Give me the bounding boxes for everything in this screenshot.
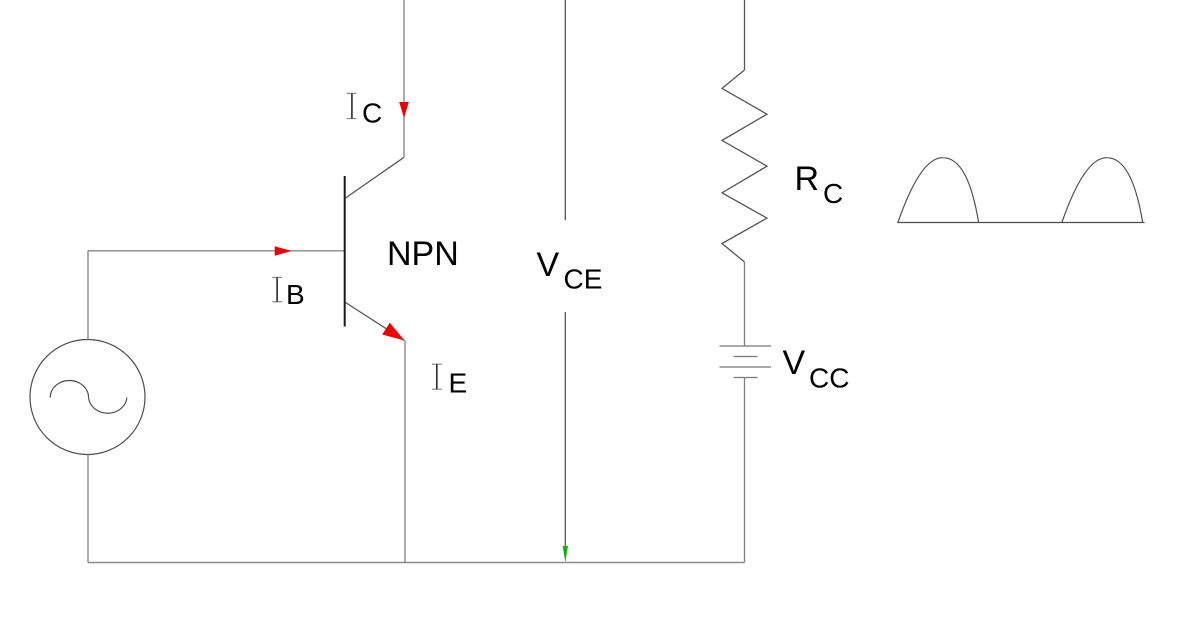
current arrow IB: [275, 246, 292, 256]
wire: source top to base node: [87, 251, 89, 340]
label IE: [432, 364, 467, 398]
svg-text:CE: CE: [564, 264, 603, 295]
wire: emitter vertical: [404, 341, 406, 563]
label RC: [795, 160, 844, 209]
label IC: [347, 93, 383, 128]
wire: base wire to transistor: [88, 250, 345, 252]
svg-text:C: C: [362, 98, 382, 129]
wire: resistor to battery: [744, 262, 746, 346]
label VCC: [783, 344, 850, 394]
transistor Q1 (NPN): [345, 157, 405, 340]
svg-text:B: B: [286, 279, 305, 310]
svg-text:CC: CC: [809, 363, 849, 394]
resistor RC: [722, 0, 767, 262]
label VCE: [537, 246, 603, 295]
output waveform hump 2: [1062, 158, 1143, 223]
wire: collector vertical: [403, 0, 405, 157]
emitter arrowhead (IE direction): [382, 323, 404, 341]
svg-text:V: V: [537, 246, 560, 284]
svg-text:V: V: [783, 344, 806, 382]
output waveform baseline: [897, 222, 1144, 224]
VCE measurement line (lower segment): [564, 312, 566, 548]
battery VCC: [720, 346, 772, 378]
wire: bottom rail: [88, 562, 745, 564]
svg-text:C: C: [823, 178, 843, 209]
svg-text:NPN: NPN: [387, 235, 459, 273]
current arrow IC: [399, 102, 409, 118]
output waveform hump 1: [898, 158, 979, 223]
wire: battery to bottom rail: [744, 378, 746, 563]
AC source VS: [30, 340, 145, 455]
label IB: [272, 277, 304, 310]
VCE green arrowhead: [563, 546, 568, 563]
svg-text:R: R: [795, 160, 820, 198]
VCE measurement line (upper segment): [564, 0, 566, 220]
wire: source bottom to rail: [87, 455, 89, 563]
svg-text:E: E: [449, 368, 468, 399]
